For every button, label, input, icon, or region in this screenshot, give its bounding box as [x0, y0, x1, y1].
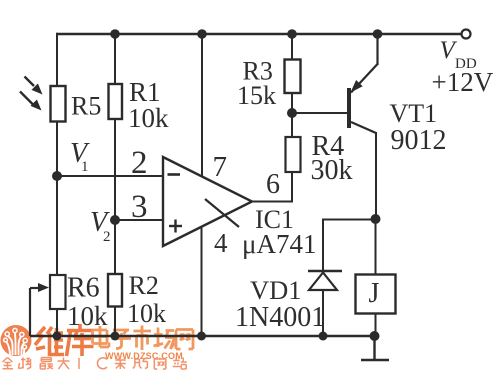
- wire R3 top: [291, 34, 293, 59]
- ground: [361, 336, 389, 360]
- junction dot pin7 top: [197, 29, 207, 39]
- svg-text:6: 6: [266, 169, 280, 200]
- svg-text:R6: R6: [67, 273, 100, 304]
- svg-text:15k: 15k: [237, 81, 276, 110]
- resistor R1: [109, 84, 123, 119]
- svg-text:VD1: VD1: [250, 275, 302, 305]
- svg-text:2: 2: [103, 229, 111, 245]
- wire relay bottom: [375, 313, 377, 336]
- vdd terminal circle: [462, 30, 471, 39]
- bottom rail wire: [30, 335, 375, 338]
- svg-text:R5: R5: [71, 92, 101, 121]
- watermark gray row: [3, 358, 187, 370]
- watermark text weiku: [35, 324, 94, 356]
- svg-text:10k: 10k: [127, 299, 166, 328]
- wire pin7: [201, 34, 203, 177]
- svg-text:+12V: +12V: [432, 67, 494, 97]
- svg-text:10k: 10k: [128, 103, 169, 133]
- wire R2 bottom: [114, 306, 116, 336]
- wire R1 bottom to V2: [114, 119, 116, 220]
- transistor emitter wire: [351, 34, 378, 93]
- wire tee to diode: [323, 220, 376, 272]
- svg-text:4: 4: [214, 228, 228, 258]
- junction dot R3 R4 base: [287, 108, 297, 118]
- watermark text dzsc row: [93, 326, 194, 351]
- light arrow 1: [25, 77, 43, 95]
- junction dot diode rail: [319, 332, 328, 341]
- svg-text:1: 1: [81, 159, 89, 175]
- wire R4 top: [291, 113, 293, 137]
- label V1: [70, 138, 90, 175]
- transistor Q1 base bar: [347, 88, 351, 128]
- wire R6 bottom: [56, 309, 58, 336]
- wire V1 to R6: [56, 176, 58, 275]
- resistor R5: [51, 86, 66, 122]
- junction dot collector tee: [371, 214, 381, 224]
- svg-text:1N4001: 1N4001: [235, 302, 325, 333]
- junction dot R6 rail: [53, 332, 62, 341]
- junction dot pin4 rail: [197, 332, 206, 341]
- wire R1 top: [114, 34, 116, 85]
- wire pin4: [201, 227, 203, 336]
- node V1 dot: [52, 171, 62, 181]
- junction dot R1 top: [110, 29, 120, 39]
- wire wiper down: [29, 288, 31, 336]
- op-amp U1 triangle: [163, 157, 252, 246]
- transistor collector wire: [351, 122, 376, 219]
- junction dot R3 rail: [287, 29, 297, 39]
- wire V2 to R2: [114, 220, 116, 275]
- svg-text:J: J: [369, 278, 380, 309]
- wire base: [292, 112, 347, 114]
- wire V1 to opamp pin2: [57, 175, 163, 177]
- resistor R2: [108, 274, 122, 307]
- resistor R6: [50, 275, 66, 309]
- svg-text:2: 2: [131, 145, 148, 181]
- wire opamp output: [252, 201, 292, 203]
- wire R5 bottom to V1: [56, 122, 58, 176]
- wire output to R4: [291, 172, 293, 203]
- node V2 dot: [110, 215, 120, 225]
- svg-text:30k: 30k: [311, 155, 353, 186]
- svg-text:10k: 10k: [67, 301, 108, 331]
- relay J box: [356, 275, 396, 314]
- R6 wiper arrow: [30, 283, 49, 292]
- junction dot R2 rail: [111, 332, 120, 341]
- diode VD1: [308, 271, 342, 336]
- resistor R4: [286, 137, 301, 172]
- wire R5 top: [56, 33, 58, 86]
- label VDD: [440, 37, 477, 72]
- svg-text:VT1: VT1: [390, 99, 438, 128]
- wire relay top: [375, 219, 377, 274]
- watermark logo circle: [1, 325, 32, 356]
- light arrow 2: [20, 92, 42, 111]
- svg-text:R2: R2: [129, 271, 159, 300]
- svg-text:7: 7: [213, 151, 228, 183]
- wire R3 bottom: [291, 92, 293, 113]
- resistor R3: [285, 60, 301, 94]
- svg-text:μA741: μA741: [242, 229, 316, 259]
- svg-text:9012: 9012: [391, 125, 447, 156]
- wire V2 to opamp pin3: [115, 219, 163, 221]
- svg-text:3: 3: [131, 189, 148, 225]
- top rail wire: [57, 33, 462, 36]
- label V2: [90, 207, 111, 245]
- op-amp slash mark: [205, 199, 239, 227]
- op-amp plus sign: [169, 220, 182, 233]
- op-amp minus sign: [168, 173, 181, 176]
- junction dot emitter rail: [373, 29, 383, 39]
- junction dot relay rail: [370, 331, 380, 341]
